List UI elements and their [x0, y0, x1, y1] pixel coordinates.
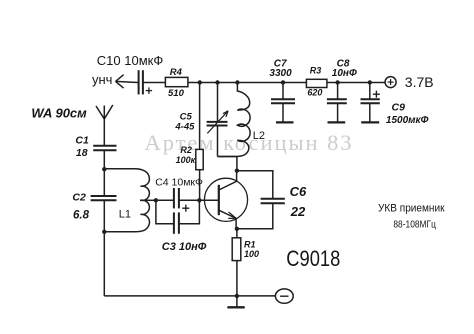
wire tank bottom: [218, 156, 237, 158]
svg-text:88-108МГц: 88-108МГц: [393, 219, 436, 230]
capacitor C9: [361, 99, 380, 103]
wire C9 to ground bar: [369, 103, 371, 122]
svg-text:R3: R3: [310, 66, 322, 76]
node rail R2 junction: [198, 80, 202, 84]
node C junction tap: [154, 198, 158, 202]
svg-text:C9018: C9018: [286, 246, 340, 271]
svg-text:3.7В: 3.7В: [405, 74, 434, 90]
svg-text:1500мкФ: 1500мкФ: [386, 115, 429, 126]
svg-text:18: 18: [76, 147, 88, 159]
wire C10 to R4: [143, 82, 166, 84]
variable capacitor C5: [207, 122, 228, 126]
wire base: [199, 199, 218, 201]
ground bar C7: [276, 121, 294, 123]
wire C3 loop right: [179, 200, 200, 224]
node rail C9 junction: [368, 80, 372, 84]
node rail C7 junction: [281, 80, 285, 84]
capacitor C1: [93, 146, 116, 151]
node A junction: [102, 167, 106, 171]
wire rail to C5: [217, 83, 219, 122]
wire top rail R4 to R3: [188, 82, 307, 84]
wire rail to R2: [199, 83, 201, 150]
svg-text:6.8: 6.8: [73, 210, 90, 222]
svg-text:10нФ: 10нФ: [332, 68, 357, 79]
wire C8 to ground bar: [337, 103, 339, 122]
C10 plus sign: [146, 87, 152, 93]
svg-text:унч: унч: [92, 72, 112, 87]
transistor Q1 circle: [204, 178, 247, 221]
ground bar C9: [361, 121, 379, 123]
node rail C8 junction: [335, 80, 339, 84]
wire R2 to node D: [199, 170, 201, 201]
svg-text:C2: C2: [72, 191, 86, 203]
wire collector to C6: [237, 171, 273, 199]
wire C2 to node B: [103, 200, 105, 232]
svg-text:620: 620: [307, 88, 322, 98]
transistor Q1 emitter arrow: [228, 212, 236, 218]
capacitor C10: [139, 70, 143, 94]
resistor R4: [165, 77, 188, 86]
svg-text:4-45: 4-45: [174, 122, 195, 133]
transistor Q1 collector lead: [219, 171, 237, 190]
svg-text:3300: 3300: [269, 68, 292, 79]
resistor R2: [196, 149, 203, 169]
svg-text:C1: C1: [75, 134, 89, 146]
battery minus terminal: [275, 289, 293, 303]
node rail C5 junction: [215, 80, 219, 84]
svg-text:C6: C6: [290, 184, 307, 199]
wire tank to collector: [236, 157, 238, 171]
svg-text:510: 510: [168, 88, 185, 99]
wire node A down through C2: [103, 169, 105, 196]
wire top rail R3 to supply terminal: [327, 82, 385, 84]
wire C5 down to tank bottom: [217, 126, 219, 157]
node унч output arrow: [116, 75, 139, 88]
C4 plus sign: [182, 205, 189, 212]
svg-text:100: 100: [244, 249, 259, 259]
C9 plus sign: [373, 91, 380, 98]
wire C4 to node D: [179, 199, 200, 201]
capacitor C4: [174, 188, 179, 208]
C5 arrow: [207, 111, 228, 134]
svg-text:22: 22: [290, 204, 306, 219]
wire C1 to node A: [103, 150, 105, 169]
wire node B to bottom rail: [103, 232, 105, 296]
svg-text:R1: R1: [244, 239, 256, 249]
transistor Q1 emitter lead: [219, 210, 236, 229]
wire R1 to bottom rail: [236, 261, 238, 296]
ground bar C8: [328, 121, 346, 123]
svg-text:С4 10мкФ: С4 10мкФ: [155, 176, 203, 188]
antenna WA: [96, 105, 113, 146]
node rail L2 junction: [235, 80, 239, 84]
svg-text:С10 10мкФ: С10 10мкФ: [97, 53, 164, 68]
svg-text:R2: R2: [180, 145, 192, 155]
node collector junction: [235, 169, 239, 173]
wire C6 to emitter: [237, 203, 273, 229]
svg-text:УКВ приемник: УКВ приемник: [378, 203, 445, 215]
svg-text:С3 10нФ: С3 10нФ: [162, 241, 207, 253]
wire node C to C4: [156, 199, 174, 201]
node D junction base: [197, 198, 201, 202]
wire rail to C9: [369, 83, 371, 100]
capacitor C6: [261, 199, 285, 204]
inductor L2: [218, 83, 251, 157]
node emitter junction: [235, 227, 239, 231]
resistor R1: [232, 238, 241, 261]
capacitor C3: [174, 212, 179, 233]
wire L1 tap to node C: [140, 199, 156, 201]
svg-text:С9: С9: [392, 102, 406, 114]
wire emitter to R1: [236, 229, 238, 238]
wire rail to C8: [337, 83, 339, 100]
svg-text:WA 90см: WA 90см: [31, 106, 87, 121]
resistor R3: [306, 79, 327, 87]
inductor L1: [104, 169, 149, 232]
node B junction: [102, 230, 106, 234]
node bottom junction: [235, 294, 239, 298]
wire C7 to ground bar: [282, 103, 284, 122]
wire rail to C7: [282, 83, 284, 100]
capacitor C7: [271, 99, 295, 103]
ground: [227, 296, 244, 307]
transistor Q1 base bar: [218, 185, 220, 215]
svg-text:R4: R4: [170, 67, 183, 78]
wire bottom rail: [104, 295, 275, 297]
wire C3 loop left: [156, 200, 174, 224]
svg-text:L1: L1: [119, 209, 131, 221]
svg-text:L2: L2: [253, 130, 265, 142]
supply terminal plus: [385, 77, 396, 88]
svg-text:100к: 100к: [176, 155, 196, 165]
capacitor C8: [327, 99, 347, 103]
capacitor C2: [91, 196, 117, 200]
